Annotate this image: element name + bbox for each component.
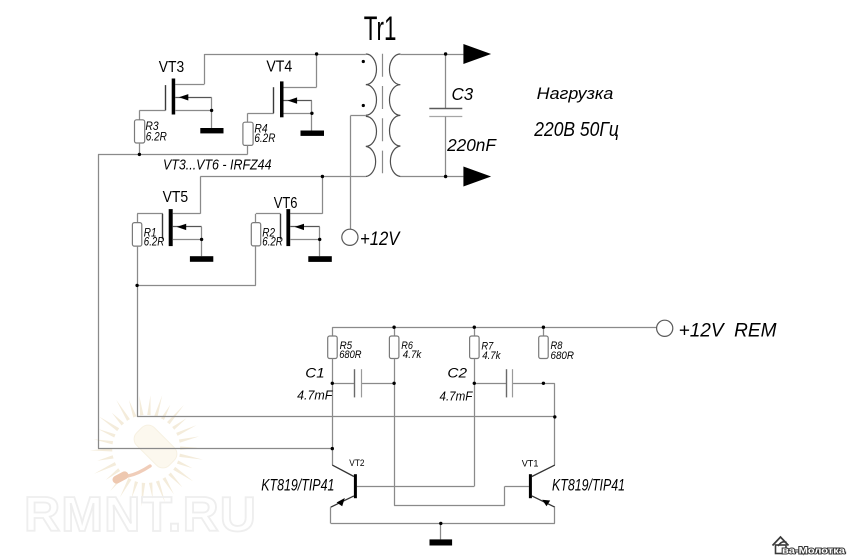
transformer Tr1 secondary winding (right, 4 humps): [389, 54, 400, 177]
wire: VT1 base link riser: [504, 486, 506, 505]
transistor VT5 (IRFZ44 N-MOSFET): [137, 209, 202, 256]
wire: emitter common rail: [331, 523, 555, 525]
resistor R3: [135, 120, 145, 143]
ground (VT4 source): [301, 131, 325, 136]
resistor R7: [470, 336, 480, 359]
wire: drive line B riser: [137, 285, 139, 417]
svg-text:4.7k: 4.7k: [482, 350, 501, 362]
wire: drive line A to VT2 collector: [98, 448, 332, 450]
svg-text:+12V: +12V: [360, 229, 401, 250]
node: phase dot (upper primary): [362, 60, 365, 63]
node: VT3 source/body junction: [210, 109, 213, 112]
ground (VT6 source): [308, 256, 332, 262]
node: junction C1 left / VT2 collector: [331, 382, 334, 385]
wire: ground stub: [440, 523, 442, 539]
wire: VT5 drain riser: [200, 177, 202, 214]
wire: VT6 drain riser: [322, 177, 324, 214]
transistor VT1 (KT819/TIP41 NPN): [529, 465, 555, 523]
svg-text:KT819/TIP41: KT819/TIP41: [261, 477, 334, 495]
node: junction C1 right / R6: [392, 382, 395, 385]
output arrow (load, top): [463, 44, 491, 64]
node: junction drive B / VT1 collector: [553, 415, 556, 418]
svg-text:KT819/TIP41: KT819/TIP41: [552, 477, 625, 495]
wire: secondary bottom to output: [400, 176, 463, 178]
svg-text:VT2: VT2: [349, 458, 364, 468]
svg-text:RMNT.RU: RMNT.RU: [24, 488, 257, 542]
node: junction C3 top: [444, 52, 447, 55]
wire: lower rail (VT5/VT6 drains to primary winding bottom): [200, 176, 365, 178]
wire: top rail (VT3/VT4 drains to primary winding top): [204, 54, 365, 56]
node: VT4 source/body junction: [310, 112, 313, 115]
node: junction C2 right / R8: [542, 382, 545, 385]
wire: R7 top lead: [474, 327, 476, 336]
node: junction ground: [439, 522, 442, 525]
node: junction VT4 drain / top rail: [315, 52, 318, 55]
svg-text:VT3...VT6 - IRFZ44: VT3...VT6 - IRFZ44: [163, 157, 272, 174]
node: junction VT6 drain / lower rail: [321, 175, 324, 178]
node: junction R8 / rail: [542, 326, 545, 329]
transformer core (dashed): [382, 54, 384, 174]
wire: R3 bottom lead: [139, 143, 141, 154]
node: junction drive A / VT2 collector: [331, 447, 334, 450]
capacitor C1: [332, 383, 354, 385]
node: phase dot (lower primary): [362, 104, 365, 107]
transistor VT6 (IRFZ44 N-MOSFET): [256, 209, 323, 256]
resistor R8: [539, 336, 549, 359]
svg-text:VT5: VT5: [163, 189, 189, 206]
terminal: +12V REM: [657, 320, 673, 336]
decorative watermark: sunburst logo: [90, 395, 203, 507]
wire: VT2 collector node riser (R5 bottom): [332, 359, 334, 466]
output arrow (load, bottom): [463, 167, 491, 187]
ground (oscillator common): [430, 539, 453, 545]
ground (VT5 source): [190, 256, 213, 262]
svg-text:Нагрузка: Нагрузка: [537, 84, 614, 103]
wire: drive line B to VT1 collector: [137, 416, 555, 418]
node: VT5 source/body junction: [200, 238, 203, 241]
resistor R2: [251, 223, 260, 246]
transformer Tr1 primary winding (left, 2x2 humps): [366, 54, 377, 177]
svg-text:C1: C1: [305, 366, 324, 381]
ground (VT3 source): [200, 128, 223, 133]
node: junction C3 bottom: [444, 175, 447, 178]
svg-text:+12V REM: +12V REM: [679, 321, 777, 342]
svg-text:VT3: VT3: [159, 59, 184, 76]
transistor VT2 (KT819/TIP41 NPN): [331, 465, 357, 523]
svg-text:6.2R: 6.2R: [146, 132, 167, 144]
wire: R1 bottom lead: [137, 246, 139, 285]
wire: R4 bottom lead: [247, 145, 249, 154]
wire: gate drive line B horizontal (R1/R2 bottoms): [137, 285, 256, 287]
decorative watermark: paint roller: [111, 421, 180, 485]
svg-text:Tr1: Tr1: [364, 10, 397, 48]
wire: VT3 drain riser: [204, 54, 206, 84]
svg-text:C3: C3: [452, 84, 474, 104]
capacitor C3: [445, 54, 447, 109]
svg-text:680R: 680R: [551, 350, 574, 362]
wire: gate drive line A horizontal (R3/R4 bottoms): [98, 154, 248, 156]
decorative watermark: Dva-Molotka logo: [773, 537, 846, 557]
terminal: +12V centre-tap supply: [342, 229, 358, 245]
wire: VT1 collector node riser (C2 right): [554, 383, 556, 465]
wire: VT4 drain riser: [316, 54, 318, 87]
svg-text:220nF: 220nF: [446, 135, 497, 155]
node: junction R1 / drive line B: [135, 284, 138, 287]
wire: primary centre tap: [350, 115, 365, 117]
svg-text:C2: C2: [447, 366, 467, 381]
wire: +12V REM rail: [332, 327, 656, 329]
svg-text:680R: 680R: [339, 349, 361, 361]
svg-text:4.7mF: 4.7mF: [440, 388, 474, 403]
wire: VT1 base link horizontal: [394, 505, 505, 507]
wire: secondary top to output: [400, 54, 463, 56]
svg-text:4.7k: 4.7k: [403, 349, 422, 361]
wire: drive line A left riser: [98, 154, 100, 448]
svg-text:6.2R: 6.2R: [262, 236, 283, 248]
svg-text:6.2R: 6.2R: [254, 133, 275, 145]
transistor VT3 (IRFZ44 N-MOSFET): [139, 79, 211, 129]
node: junction R6 / rail: [392, 326, 395, 329]
wire: R7 bottom riser (VT2 base node): [474, 359, 476, 487]
transistor VT4 (IRFZ44 N-MOSFET): [248, 81, 317, 130]
wire: R5 top lead: [332, 327, 334, 336]
node: junction C2 left / R7 (VT2 base node): [473, 382, 476, 385]
node: junction R3 / drive line A: [138, 153, 141, 156]
wire: R8 top lead: [543, 327, 545, 336]
resistor R5: [328, 336, 338, 359]
resistor R1: [132, 223, 141, 247]
wire: R6 bottom riser: [394, 359, 396, 506]
svg-text:6.2R: 6.2R: [144, 236, 165, 248]
svg-text:4.7mF: 4.7mF: [297, 388, 333, 403]
svg-text:ва-Молотка: ва-Молотка: [782, 546, 846, 557]
capacitor C2: [474, 383, 506, 385]
wire: VT1 base stub: [505, 486, 529, 488]
svg-text:220В 50Гц: 220В 50Гц: [533, 119, 618, 141]
wire: R6 top lead: [394, 327, 396, 336]
node: VT6 source/body junction: [318, 238, 321, 241]
resistor R6: [389, 336, 399, 359]
svg-text:VT6: VT6: [274, 195, 298, 212]
resistor R4: [243, 122, 253, 145]
wire: R2 bottom lead: [255, 246, 257, 286]
wire: VT2 base stub: [357, 486, 474, 488]
svg-text:VT1: VT1: [522, 458, 539, 468]
svg-text:VT4: VT4: [266, 59, 292, 76]
node: junction R7 / rail: [473, 326, 476, 329]
